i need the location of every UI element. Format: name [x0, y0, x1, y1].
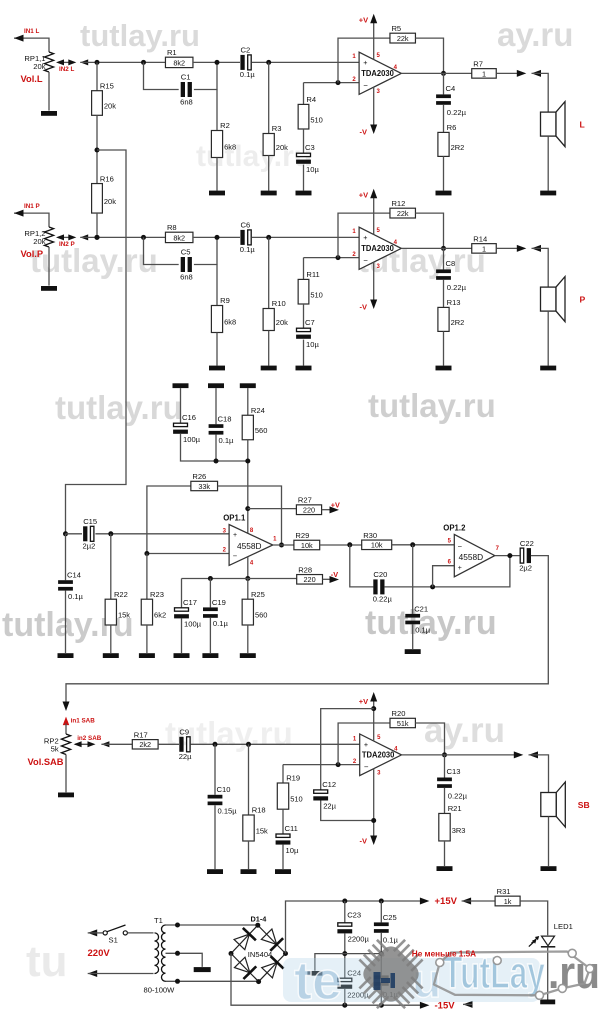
svg-text:IN1 P: IN1 P — [24, 203, 40, 210]
svg-text:15k: 15k — [118, 611, 130, 620]
svg-text:ay.ru: ay.ru — [424, 711, 505, 750]
wire inverting input — [304, 82, 360, 84]
wire to R11 — [303, 258, 305, 280]
wire +V supply — [373, 17, 375, 60]
svg-text:+: + — [363, 58, 367, 67]
wire switch to transformer — [127, 932, 153, 934]
wire C19 to ground — [209, 618, 211, 653]
svg-text:10µ: 10µ — [306, 165, 319, 174]
capacitor C5 — [180, 248, 193, 282]
wire R11 to C7 — [303, 304, 305, 328]
junction feedback — [336, 255, 341, 260]
capacitor C18 — [209, 415, 234, 445]
capacitor C15 — [83, 517, 98, 551]
junction feedback — [336, 80, 341, 85]
wire IN2 P node to R8 — [80, 236, 165, 238]
svg-text:R23: R23 — [150, 590, 164, 599]
svg-text:Vol.P: Vol.P — [21, 249, 44, 259]
svg-text:2R2: 2R2 — [451, 318, 465, 327]
svg-text:22k: 22k — [397, 34, 409, 43]
switch S1 — [103, 925, 127, 935]
svg-text:80-100W: 80-100W — [144, 986, 176, 995]
junction R15/R16 tap — [95, 148, 100, 153]
svg-text:0.15µ: 0.15µ — [218, 806, 238, 815]
LED LED1 — [529, 936, 556, 947]
wire C2 to op-amp pin1 — [252, 61, 359, 63]
ground below R3 — [261, 191, 277, 196]
svg-text:IN1 L: IN1 L — [24, 28, 40, 35]
wire input to RP1,2 — [14, 213, 49, 227]
junction R16 bottom — [95, 235, 100, 240]
svg-text:R2: R2 — [220, 121, 230, 130]
arrow -15V right — [420, 1002, 430, 1009]
wire C10 to ground — [214, 805, 216, 869]
svg-text:-V: -V — [360, 303, 368, 312]
wire speaker SB to ground — [548, 817, 550, 867]
svg-text:+V: +V — [331, 500, 340, 509]
wire C5 to junction — [194, 237, 217, 264]
ground below R10 — [261, 366, 277, 371]
svg-text:IN5404: IN5404 — [248, 950, 272, 959]
wire R6 to ground — [443, 156, 445, 190]
svg-text:R9: R9 — [220, 296, 230, 305]
svg-text:R7: R7 — [473, 59, 483, 68]
svg-text:1: 1 — [482, 69, 486, 78]
svg-text:33k: 33k — [198, 482, 210, 491]
wire C26 to -15V rail — [380, 986, 382, 1005]
svg-text:C8: C8 — [446, 259, 456, 268]
svg-text:-V: -V — [360, 128, 368, 137]
svg-text:10µ: 10µ — [286, 846, 299, 855]
svg-text:OP1.2: OP1.2 — [443, 524, 466, 533]
speaker arrow left SAB — [529, 751, 539, 758]
wire to C21 — [412, 545, 414, 614]
svg-text:51k: 51k — [397, 719, 409, 728]
wire mains bottom to transformer — [88, 973, 154, 975]
junction R24/C16 — [245, 459, 250, 464]
svg-text:tutlay.ru: tutlay.ru — [365, 604, 497, 642]
svg-text:R14: R14 — [473, 234, 487, 243]
wire secondary bottom to bridge — [166, 980, 259, 982]
wire to pin 6 — [433, 566, 455, 587]
svg-text:5k: 5k — [51, 744, 59, 753]
op-amp OP1.2 4558D — [443, 524, 495, 577]
wire to R3 — [268, 62, 270, 133]
wire bridge plus to +15V rail — [286, 901, 425, 954]
junction R3 top — [266, 235, 271, 240]
diode D3 — [234, 957, 256, 979]
svg-text:−: − — [364, 762, 369, 771]
wire +V supply — [373, 192, 375, 235]
arrow into wiper — [80, 234, 88, 240]
svg-text:560: 560 — [255, 611, 268, 620]
junction C23 top — [342, 899, 347, 904]
ground below speaker SB — [541, 866, 557, 871]
op-amp OP1.1 4558D — [223, 513, 273, 565]
wire R1 to C2 — [193, 61, 240, 63]
svg-text:0.1µ: 0.1µ — [213, 619, 229, 628]
svg-text:OP1.1: OP1.1 — [223, 513, 246, 522]
wire to R18 — [248, 744, 250, 815]
ground below C10 — [207, 869, 223, 874]
wire R15 to R16 — [96, 115, 98, 183]
wire mid rail to ground — [315, 954, 345, 971]
svg-text:R24: R24 — [251, 406, 265, 415]
bridge node plus — [283, 951, 288, 956]
arrow -V supply op-amp — [330, 576, 340, 583]
svg-text:C5: C5 — [181, 248, 191, 257]
wire pin 4 down — [247, 557, 249, 579]
wire inverting input OP1.1 — [147, 553, 229, 555]
capacitor C24 electrolytic — [337, 978, 352, 989]
ground above C16 — [173, 383, 189, 388]
speaker arrow left — [532, 70, 542, 77]
svg-text:C15: C15 — [83, 517, 97, 526]
ground below C3 — [296, 191, 312, 196]
resistor R26 — [190, 472, 218, 491]
svg-text:C17: C17 — [183, 598, 197, 607]
wire C3 to ground — [303, 165, 305, 191]
wire to R2 — [216, 90, 218, 131]
wire to C1 — [144, 62, 179, 89]
wire to switch S1 — [88, 932, 103, 934]
capacitor C16 electrolytic — [173, 413, 201, 444]
svg-text:P: P — [580, 295, 586, 305]
svg-text:C10: C10 — [217, 785, 231, 794]
svg-text:510: 510 — [310, 290, 323, 299]
terminal secondary bottom — [175, 979, 180, 984]
svg-text:6k8: 6k8 — [224, 143, 236, 152]
diode D2 — [261, 929, 283, 951]
logo link outline — [434, 949, 594, 999]
wire RP2 to ground — [65, 755, 67, 793]
wire mid rail — [345, 953, 382, 955]
svg-text:R8: R8 — [167, 223, 177, 232]
svg-text:560: 560 — [255, 426, 268, 435]
diode D4 — [262, 956, 284, 978]
svg-text:R25: R25 — [251, 590, 265, 599]
wire R22 to ground — [110, 625, 112, 653]
terminal secondary top — [175, 923, 180, 928]
wire C4 to R6 — [443, 105, 445, 133]
capacitor C25 — [374, 913, 397, 933]
svg-text:2200µ: 2200µ — [348, 935, 370, 944]
wire C13 to R21 — [444, 788, 446, 814]
svg-text:R26: R26 — [192, 472, 206, 481]
svg-text:6k2: 6k2 — [154, 611, 166, 620]
capacitor C6 — [240, 221, 256, 255]
arrow +15V right — [420, 898, 430, 905]
svg-text:C23: C23 — [347, 911, 361, 920]
junction C21 top — [410, 542, 415, 547]
wire R19 to C11 — [282, 809, 284, 833]
wire R17 to C9 — [158, 743, 179, 745]
arrow down to RP2 — [63, 702, 70, 712]
resistor R17 — [132, 730, 159, 749]
svg-text:6n8: 6n8 — [180, 272, 193, 281]
svg-text:R4: R4 — [306, 95, 316, 104]
capacitor C26 — [374, 975, 389, 985]
junction feedback SAB — [336, 762, 341, 767]
wire R18 to ground — [248, 841, 250, 869]
ground above R24 — [240, 383, 256, 388]
svg-text:+V: +V — [359, 15, 368, 24]
potentiometer RP1,2 — [44, 227, 53, 247]
capacitor C21 — [405, 604, 430, 634]
resistor R21 — [439, 804, 466, 841]
svg-text:+: + — [458, 565, 462, 572]
wire R29 to R30 — [320, 544, 362, 546]
resistor R28 — [296, 565, 323, 584]
svg-text:tu: tu — [26, 937, 68, 986]
junction C24 bottom — [342, 1003, 347, 1008]
resistor R15 — [92, 81, 117, 115]
wire pot to ground — [48, 247, 50, 286]
svg-text:C13: C13 — [447, 767, 461, 776]
junction mid rail C25/C26 — [379, 951, 384, 956]
resistor R7 — [471, 59, 497, 78]
svg-text:0.22µ: 0.22µ — [447, 283, 467, 292]
capacitor C1 — [180, 73, 193, 107]
wire input to RP1,1 — [14, 38, 49, 52]
svg-text:22µ: 22µ — [179, 752, 192, 761]
svg-text:1: 1 — [482, 244, 486, 253]
svg-text:-V: -V — [331, 570, 338, 579]
svg-text:tutlay.ru: tutlay.ru — [80, 18, 200, 53]
svg-text:1k: 1k — [504, 897, 512, 906]
output arrow right SAB — [514, 751, 524, 758]
wire C24 to -15V rail — [344, 989, 346, 1005]
svg-text:4558D: 4558D — [459, 553, 484, 562]
arrow -V — [370, 125, 377, 135]
wire C17 to ground — [181, 618, 183, 653]
svg-text:C2: C2 — [241, 46, 251, 55]
wire R4 to C3 — [303, 129, 305, 153]
svg-text:0.1µ: 0.1µ — [68, 592, 84, 601]
wire pot to ground — [48, 72, 50, 111]
wire R2 to ground — [216, 158, 218, 191]
wiper arrow left — [56, 234, 64, 240]
svg-text:0.1µ: 0.1µ — [415, 626, 431, 635]
wire R3 to ground — [268, 156, 270, 191]
junction OP1.1 output — [279, 543, 284, 548]
wire inverting input SAB — [283, 764, 360, 766]
wire tap to filter C15 — [66, 150, 127, 534]
junction R2 top — [215, 60, 220, 65]
resistor R1 — [165, 48, 194, 68]
ground below RP1,1 — [41, 111, 57, 116]
wire ground to C16 — [180, 388, 182, 423]
mains arrow bottom — [88, 970, 98, 977]
resistor R13 — [438, 298, 464, 331]
svg-text:TDA2030: TDA2030 — [362, 750, 395, 759]
svg-text:C9: C9 — [179, 728, 189, 737]
svg-text:100µ: 100µ — [183, 435, 201, 444]
svg-text:20k: 20k — [104, 197, 116, 206]
svg-text:8k2: 8k2 — [173, 233, 185, 242]
ground below R6 — [436, 191, 452, 196]
wire to C10 — [214, 744, 216, 795]
resistor R10 — [263, 299, 288, 330]
wire to R23 — [146, 554, 148, 600]
input arrow IN1 P — [14, 210, 24, 217]
junction C12 top — [371, 706, 376, 711]
svg-text:R18: R18 — [252, 806, 266, 815]
wire to R9 — [216, 265, 218, 306]
output arrow right — [517, 70, 527, 77]
logo ghost letters — [283, 951, 540, 1011]
wiper wire RP2 — [75, 743, 94, 745]
wire to R10 — [268, 237, 270, 308]
junction C25 top — [379, 899, 384, 904]
svg-text:4558D: 4558D — [237, 542, 262, 551]
svg-text:C6: C6 — [241, 221, 251, 230]
wire to RP2 — [65, 724, 67, 735]
input arrow IN1 L — [14, 35, 24, 42]
svg-text:220V: 220V — [88, 948, 111, 959]
wire to speaker — [532, 73, 549, 112]
svg-text:R17: R17 — [134, 730, 148, 739]
svg-text:Не меньше 1.5А: Не меньше 1.5А — [412, 950, 476, 959]
junction C1 branch — [141, 60, 146, 65]
resistor R11 — [298, 270, 323, 304]
ground below R18 — [241, 869, 257, 874]
arrow -15V left — [463, 1001, 473, 1008]
wire +V supply SAB — [373, 695, 375, 741]
wiper arrow left RP2 — [74, 741, 82, 747]
wiper wire RP1,2 — [58, 236, 73, 238]
resistor R23 — [141, 590, 166, 625]
wire to R22 — [110, 534, 112, 599]
wire C9 to TDA2030 pin1 — [190, 743, 359, 745]
svg-text:+V: +V — [359, 190, 368, 199]
ground above C18 — [208, 383, 224, 388]
capacitor C11 electrolytic — [276, 824, 299, 855]
wire to R27 — [248, 508, 297, 510]
svg-text:R21: R21 — [448, 804, 462, 813]
ground below R9 — [209, 366, 225, 371]
wire R16 to channel P input — [96, 213, 98, 237]
svg-text:C25: C25 — [383, 913, 397, 922]
svg-text:D1-4: D1-4 — [251, 915, 268, 924]
wire speaker to ground — [547, 136, 549, 191]
svg-text:0.22µ: 0.22µ — [373, 595, 393, 604]
wire center tap to ground — [166, 953, 203, 967]
svg-text:R29: R29 — [295, 531, 309, 540]
mains arrow top — [88, 929, 98, 936]
ground below speaker P — [540, 366, 556, 371]
wiper arrow right — [68, 234, 76, 240]
svg-text:C22: C22 — [520, 539, 534, 548]
resistor R5 — [389, 24, 416, 43]
svg-text:C14: C14 — [67, 571, 81, 580]
wire feedback to output — [415, 38, 443, 73]
svg-text:0.22µ: 0.22µ — [448, 791, 468, 800]
transformer T1 primary winding — [155, 933, 159, 974]
resistor R31 — [495, 887, 521, 906]
wire to R4 — [303, 83, 305, 105]
wire OP1.1 output — [273, 544, 294, 546]
svg-text:C4: C4 — [446, 84, 456, 93]
wire to C15 — [66, 533, 83, 535]
wire C18 down — [215, 435, 217, 461]
wiper arrow right RP2 — [88, 741, 96, 747]
capacitor C10 — [208, 785, 238, 815]
svg-text:Vol.L: Vol.L — [21, 74, 43, 84]
svg-text:R15: R15 — [100, 81, 114, 90]
svg-text:R5: R5 — [391, 24, 401, 33]
speaker P — [541, 277, 566, 322]
svg-text:10µ: 10µ — [306, 340, 319, 349]
resistor R27 — [296, 496, 322, 515]
junction R3 top — [266, 60, 271, 65]
arrow -V — [370, 300, 377, 310]
resistor R20 — [390, 709, 416, 728]
wire C1 to junction — [194, 62, 217, 89]
svg-text:R10: R10 — [272, 299, 286, 308]
svg-text:3R3: 3R3 — [452, 826, 466, 835]
wire C15 to pin 3 — [95, 533, 229, 535]
svg-text:tutlay.ru: tutlay.ru — [55, 389, 183, 426]
svg-text:20k: 20k — [104, 102, 116, 111]
junction output node — [441, 71, 446, 76]
wire wiper to R17 — [101, 743, 132, 745]
svg-text:in2 SAB: in2 SAB — [77, 735, 102, 742]
arrow +V — [370, 189, 377, 199]
wire to R25 — [247, 579, 249, 600]
svg-text:C18: C18 — [218, 415, 232, 424]
svg-text:0.1µ: 0.1µ — [383, 936, 399, 945]
wire R13 to ground — [443, 331, 445, 365]
svg-text:R16: R16 — [100, 174, 114, 183]
capacitor C13 — [437, 767, 467, 800]
svg-text:C7: C7 — [305, 318, 315, 327]
op-amp U3 TDA2030 subwoofer — [360, 734, 402, 776]
speaker SB — [541, 782, 566, 827]
wire C14 to ground — [65, 591, 67, 653]
capacitor C17 electrolytic — [174, 598, 202, 629]
svg-text:+V: +V — [359, 697, 368, 706]
wire output to C4 — [443, 73, 445, 94]
wire output to R14 — [401, 247, 472, 249]
wire +15V to R31 — [462, 900, 496, 902]
svg-text:100µ: 100µ — [184, 620, 202, 629]
svg-text:in1 SAB: in1 SAB — [71, 717, 96, 724]
svg-text:2k2: 2k2 — [139, 740, 151, 749]
wire to C17 — [181, 579, 183, 608]
diode D1 — [234, 928, 256, 950]
resistor R25 — [242, 590, 267, 625]
resistor R24 — [242, 406, 267, 440]
ground below RP2 — [58, 793, 74, 798]
wire -V supply SAB — [373, 769, 375, 842]
ground below C19 — [202, 653, 218, 658]
wire C7 to ground — [303, 340, 305, 366]
wire to C14 — [65, 534, 67, 580]
svg-text:10k: 10k — [301, 541, 313, 550]
capacitor C2 — [240, 46, 256, 80]
svg-text:R22: R22 — [114, 590, 128, 599]
svg-text:0.22µ: 0.22µ — [447, 108, 467, 117]
svg-text:8k2: 8k2 — [173, 58, 185, 67]
junction output feedback — [507, 553, 512, 558]
capacitor C22 — [519, 539, 534, 573]
op-amp U1 TDA2030 — [359, 52, 401, 94]
bridge rectifier D1-4 outline — [231, 925, 286, 981]
resistor R12 — [389, 199, 416, 218]
resistor R29 — [293, 531, 320, 550]
wire C25 to C26 — [380, 933, 382, 976]
